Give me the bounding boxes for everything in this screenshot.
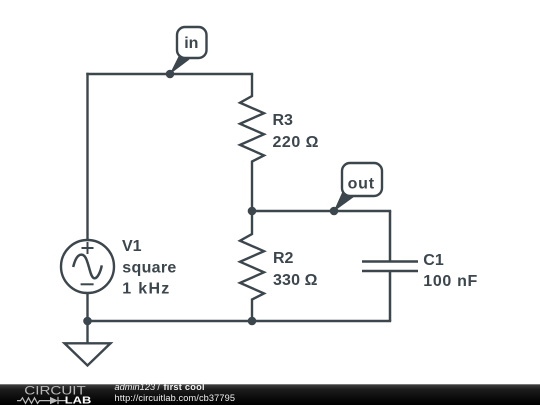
voltage source V1	[61, 240, 114, 293]
resistor R3	[240, 74, 264, 211]
svg-text:330 Ω: 330 Ω	[273, 272, 318, 289]
svg-text:220 Ω: 220 Ω	[273, 134, 319, 151]
svg-text:1 kHz: 1 kHz	[122, 280, 169, 297]
label R3 name and value	[273, 112, 319, 151]
svg-text:square: square	[122, 259, 176, 276]
node dot at out flag	[330, 207, 339, 216]
svg-text:/: /	[157, 382, 160, 392]
wire from V1 bottom to bottom rail	[86, 293, 88, 321]
svg-text:in: in	[184, 35, 198, 52]
CircuitLab logo	[17, 384, 91, 405]
ground	[65, 321, 111, 366]
node flag in	[170, 27, 207, 75]
svg-text:R2: R2	[273, 250, 294, 267]
node flag out	[334, 163, 383, 212]
svg-text:admin123: admin123	[115, 382, 156, 392]
svg-text:LAB: LAB	[65, 396, 92, 405]
svg-text:out: out	[348, 175, 375, 192]
wire middle rail from R2 top node to C1 column	[252, 210, 390, 212]
node dot at R2 bottom	[248, 317, 257, 326]
wire bottom rail	[88, 320, 391, 322]
capacitor C1	[362, 211, 418, 321]
label R2 name and value	[273, 250, 318, 289]
svg-text:V1: V1	[122, 238, 142, 255]
label C1 name and value	[423, 252, 477, 290]
svg-text:first cool: first cool	[164, 382, 205, 392]
wire top horizontal from V1 column to R3 column	[88, 73, 253, 75]
label V1 name and value	[122, 238, 176, 297]
node dot at ground junction	[83, 317, 92, 326]
svg-text:100 nF: 100 nF	[423, 273, 477, 290]
node dot at R3/R2 junction	[248, 207, 257, 216]
wire left vertical from top wire down to V1	[86, 74, 88, 240]
resistor R2	[240, 211, 264, 321]
footer bar	[0, 384, 540, 405]
svg-text:http://circuitlab.com/cb37795: http://circuitlab.com/cb37795	[115, 393, 236, 403]
svg-text:R3: R3	[273, 112, 294, 129]
node dot at in flag	[166, 70, 175, 79]
svg-text:C1: C1	[423, 252, 444, 269]
footer credit text	[115, 382, 236, 403]
